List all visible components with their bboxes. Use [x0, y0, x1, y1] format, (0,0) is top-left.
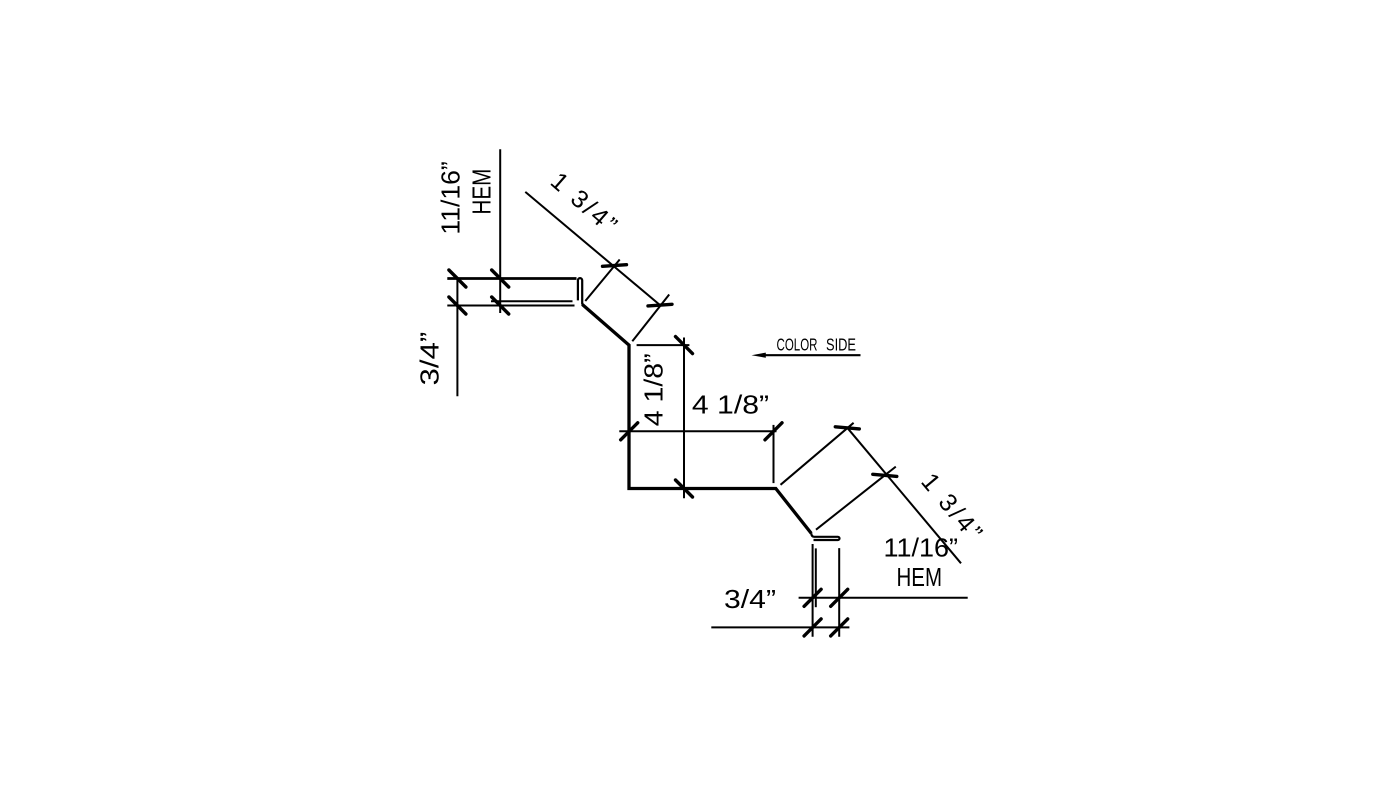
dim 1 3/4 lower: dimension line [847, 428, 961, 564]
dim 1 3/4 lower: tick 1 [835, 427, 859, 429]
dim 1 3/4 upper: extension line from curl [585, 260, 619, 302]
svg-text:HEM: HEM [897, 562, 943, 592]
top hem face line [447, 277, 576, 280]
dim 11/16 hem bottom: left tick [804, 619, 821, 636]
dim 4 1/8 vertical: top tick [676, 337, 693, 354]
svg-text:SIDE: SIDE [826, 335, 856, 355]
dim 11/16 hem left: dimension line [499, 149, 501, 313]
dim 1 3/4 upper: extension line from corner [632, 295, 669, 342]
color side arrow head [752, 353, 766, 358]
top hem curl [578, 278, 582, 304]
dim 4 1/8 vertical: dimension line [683, 338, 685, 499]
svg-text:COLOR: COLOR [777, 335, 818, 355]
dim 3/4 left: bottom tick [449, 297, 466, 314]
dim 4 1/8 horizontal: left tick [621, 423, 638, 440]
svg-text:HEM: HEM [466, 169, 496, 215]
svg-text:4 1/8”: 4 1/8” [692, 389, 769, 419]
dim 11/16 hem bottom: right tick [831, 619, 848, 636]
dim 11/16 hem left: bottom tick [492, 297, 509, 314]
bottom hem curl [811, 533, 839, 540]
dim 11/16 hem left: top tick [492, 270, 509, 287]
svg-text:3/4”: 3/4” [415, 332, 445, 386]
dim 3/4 left: top tick [449, 270, 466, 287]
dim 3/4 left: dimension line [456, 279, 458, 397]
dim 1 3/4 lower: extension line from curl [816, 467, 896, 530]
bottom leg hem inner line B [815, 548, 817, 607]
dim 3/4 bottom: left tick [804, 589, 821, 606]
dim 1 3/4 upper: dimension line [525, 192, 660, 306]
dim 11/16 hem bottom: dimension line [711, 626, 849, 628]
dim 1 3/4 upper: tick 2 [648, 304, 672, 306]
dim 4 1/8 horizontal: right tick [765, 423, 782, 440]
main profile: upper diagonal, vertical web, bottom horizontal, lower diagonal [582, 304, 811, 533]
top hem fold upper line [491, 300, 573, 302]
dim 1 3/4 upper: tick 1 [603, 265, 627, 267]
svg-text:11/16”: 11/16” [436, 161, 466, 234]
color side arrow line [763, 354, 861, 356]
dim 4 1/8 horizontal: dimension line [619, 430, 776, 432]
dim 4 1/8 vertical: extension line top [637, 344, 690, 346]
dim 3/4 bottom: dimension line [799, 597, 968, 599]
svg-text:11/16”: 11/16” [884, 533, 959, 563]
top hem fold lower line with left extension [447, 305, 574, 307]
svg-text:3/4”: 3/4” [724, 584, 776, 614]
svg-text:4 1/8”: 4 1/8” [639, 353, 669, 426]
dim 1 3/4 lower: extension line from corner [781, 423, 854, 485]
dim 1 3/4 lower: tick 2 [873, 474, 897, 476]
dim 3/4 bottom: right tick [831, 589, 848, 606]
dim 4 1/8 vertical: bottom tick [676, 480, 693, 497]
bottom leg face line C [838, 548, 840, 637]
dim 4 1/8 horizontal: extension line right [773, 425, 775, 483]
bottom leg outer line A [812, 544, 814, 637]
